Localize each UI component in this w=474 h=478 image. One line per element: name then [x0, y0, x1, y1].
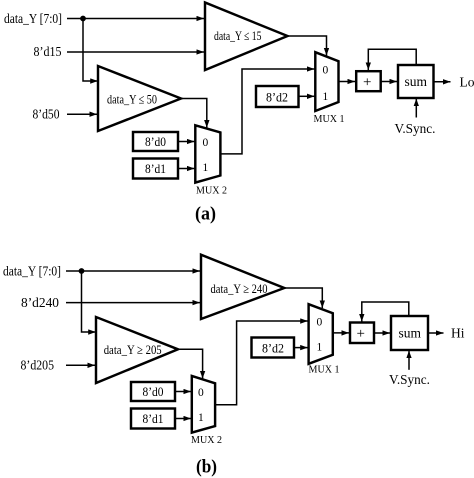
- svg-text:0: 0: [323, 65, 329, 77]
- comparator U2 data_Y <= 50: [98, 66, 181, 131]
- svg-text:8’d15: 8’d15: [34, 44, 62, 59]
- svg-text:8’d0: 8’d0: [145, 134, 166, 149]
- wire U1 output to MUX1 select: [288, 36, 327, 56]
- svg-text:data_Y ≥ 240: data_Y ≥ 240: [211, 281, 268, 296]
- register 8'd0 (b): [131, 382, 175, 401]
- mux MUX2 (b): [191, 376, 222, 446]
- svg-text:V.Sync.: V.Sync.: [395, 121, 436, 136]
- wire data_Y to comparator U3: [66, 270, 200, 272]
- svg-text:MUX 2: MUX 2: [191, 434, 222, 446]
- wire data_Y branch to comparator U4: [82, 271, 96, 332]
- svg-text:1: 1: [323, 91, 329, 103]
- comparator U1 data_Y <= 15: [205, 3, 288, 71]
- wire MUX2 output to MUX1 pin0 (b): [215, 321, 308, 405]
- svg-text:8’d0: 8’d0: [143, 384, 164, 399]
- wire sum output to Hi: [428, 332, 444, 334]
- svg-text:data_Y [7:0]: data_Y [7:0]: [3, 264, 61, 279]
- wire 8'd2 to MUX1 pin1: [299, 95, 315, 97]
- mux MUX1 (a): [314, 52, 345, 125]
- svg-text:(a): (a): [195, 204, 216, 225]
- register sum (b): [391, 316, 428, 350]
- wire adder to sum (b): [373, 332, 390, 334]
- svg-text:1: 1: [198, 412, 204, 424]
- adder + (a): [356, 71, 381, 91]
- wire 8'd50 to comparator U2: [67, 113, 97, 115]
- wire data_Y to comparator U1: [67, 18, 204, 20]
- wire 8'd1 to MUX2 pin1 (b): [175, 418, 191, 420]
- svg-text:8’d240: 8’d240: [21, 295, 59, 310]
- svg-text:MUX 1: MUX 1: [309, 364, 340, 376]
- svg-text:sum: sum: [405, 74, 428, 89]
- svg-text:8’d2: 8’d2: [262, 341, 284, 356]
- register 8'd1 (b): [131, 409, 175, 429]
- wire 8'd0 to MUX2 pin0 (b): [175, 391, 191, 393]
- comparator U3 data_Y >= 240: [201, 255, 284, 319]
- wire data_Y branch to comparator U2: [83, 19, 98, 82]
- svg-text:1: 1: [203, 162, 209, 174]
- wire sum feedback to adder (b): [362, 302, 409, 322]
- svg-text:8’d1: 8’d1: [145, 161, 166, 176]
- register 8'd2 (a): [256, 86, 299, 107]
- wire 8'd240 to comparator U3: [66, 302, 200, 304]
- svg-text:(b): (b): [196, 457, 217, 478]
- mux MUX1 (b): [309, 304, 340, 375]
- comparator U4 data_Y >= 205: [96, 317, 178, 383]
- wire V.Sync. to sum (b): [408, 351, 410, 370]
- register 8'd1 (a): [133, 159, 178, 179]
- wire adder to sum: [380, 81, 398, 83]
- wire sum output to Low: [434, 81, 451, 83]
- junction data_Y (b): [79, 268, 85, 274]
- svg-text:sum: sum: [399, 326, 422, 341]
- wire V.Sync. to sum (a): [415, 99, 417, 118]
- wire MUX1 output to adder: [339, 81, 356, 83]
- adder + (b): [350, 323, 374, 344]
- svg-text:data_Y ≥ 205: data_Y ≥ 205: [104, 342, 162, 357]
- wire 8'd15 to comparator U1: [67, 51, 204, 53]
- svg-text:Hi: Hi: [451, 325, 465, 340]
- mux MUX2 (a): [195, 125, 227, 196]
- svg-text:data_Y [7:0]: data_Y [7:0]: [4, 11, 62, 26]
- svg-text:0: 0: [198, 387, 204, 399]
- svg-text:1: 1: [317, 342, 323, 354]
- svg-text:0: 0: [317, 316, 323, 328]
- svg-text:Low: Low: [460, 74, 474, 89]
- wire 8'd1 to MUX2 pin1: [178, 168, 195, 170]
- wire 8'd205 to comparator U4: [66, 364, 95, 366]
- wire U3 output to MUX1 select (b): [284, 288, 322, 308]
- svg-text:MUX 1: MUX 1: [314, 113, 345, 125]
- svg-text:8’d205: 8’d205: [21, 358, 55, 373]
- wire U4 output to MUX2 select (b): [178, 349, 203, 378]
- wire sum feedback to adder: [368, 49, 416, 70]
- svg-text:MUX 2: MUX 2: [196, 185, 227, 197]
- register 8'd0 (a): [133, 132, 178, 151]
- svg-text:+: +: [357, 326, 365, 342]
- svg-text:data_Y ≤ 15: data_Y ≤ 15: [214, 28, 262, 43]
- svg-text:0: 0: [203, 137, 209, 149]
- wire MUX2 output to MUX1 pin0: [220, 69, 314, 154]
- svg-text:+: +: [363, 75, 371, 91]
- wire 8'd2 to MUX1 pin1 (b): [294, 347, 308, 349]
- register sum (a): [398, 65, 434, 98]
- junction data_Y (a): [80, 16, 86, 22]
- wire 8'd0 to MUX2 pin0: [178, 141, 195, 143]
- register 8'd2 (b): [252, 338, 295, 358]
- svg-text:8’d50: 8’d50: [33, 107, 60, 122]
- svg-text:V.Sync.: V.Sync.: [389, 372, 430, 387]
- wire MUX1 output to adder (b): [333, 332, 349, 334]
- svg-text:8’d1: 8’d1: [143, 411, 164, 426]
- wire U2 output to MUX2 select: [181, 99, 207, 128]
- svg-text:8’d2: 8’d2: [266, 90, 288, 105]
- svg-text:data_Y ≤ 50: data_Y ≤ 50: [107, 92, 157, 107]
